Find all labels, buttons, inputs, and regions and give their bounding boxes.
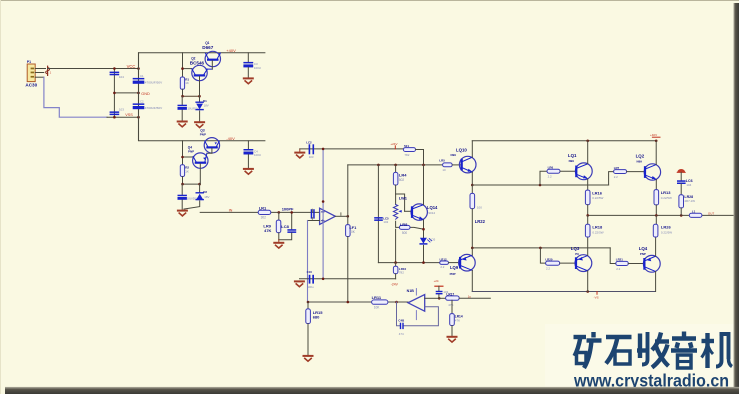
wire LQ9 base rail	[378, 262, 439, 264]
transistor LQ14 9014	[411, 204, 438, 220]
ground below C5	[178, 122, 187, 127]
wire AC2 to cap node	[107, 116, 139, 118]
svg-text:LR5: LR5	[439, 158, 445, 162]
resistor LR18 0.22/5W	[585, 215, 603, 237]
transistor Q1 D667	[202, 41, 220, 69]
glyph shi	[606, 337, 632, 364]
frame right shadow	[734, 3, 739, 394]
wire LQ4 collector down	[655, 272, 657, 292]
capacitor LC6 104	[677, 179, 693, 195]
frame left edge	[0, 0, 1, 394]
svg-text:LQ10: LQ10	[456, 148, 468, 153]
LED LD5	[420, 238, 436, 263]
wire main filter vertical	[138, 53, 140, 141]
resistor LR28	[679, 195, 695, 216]
svg-text:IN: IN	[229, 209, 233, 213]
frame top edge	[0, 0, 739, 1]
capacitor C2 4700UF/50V	[133, 100, 163, 110]
ground opamp supply cap	[295, 149, 304, 158]
power label +40V top right	[650, 133, 660, 137]
svg-text:N1B: N1B	[407, 289, 415, 293]
capacitor LC4 474	[398, 319, 404, 337]
svg-text:LR6: LR6	[548, 166, 554, 170]
resistor LR14 47K	[450, 300, 463, 336]
transistor Q2 BC546	[190, 56, 213, 96]
wire feedback node horizontal	[308, 301, 408, 303]
svg-text:LQ14: LQ14	[427, 205, 438, 210]
svg-text:0.22/5W: 0.22/5W	[592, 230, 603, 234]
svg-text:18V: 18V	[204, 104, 209, 108]
capacitor LC3	[307, 270, 314, 289]
svg-text:100U: 100U	[254, 153, 261, 157]
wire plus node to LR17	[439, 297, 445, 299]
svg-text:LR1: LR1	[259, 206, 267, 211]
svg-text:10K: 10K	[349, 230, 356, 234]
wire P1 pin3 stub	[35, 76, 44, 78]
resistor LR8	[396, 221, 425, 235]
svg-text:-24V: -24V	[391, 282, 399, 286]
svg-text:N99: N99	[451, 153, 457, 157]
wire lower bases rail	[472, 247, 610, 249]
resistor R1 1K	[180, 77, 189, 89]
svg-text:0.22/5W: 0.22/5W	[592, 196, 603, 200]
watermark panel	[545, 324, 734, 387]
svg-text:PNP: PNP	[450, 272, 456, 276]
svg-text:LQ3: LQ3	[571, 246, 580, 251]
pin ticks N1A	[312, 209, 341, 219]
capacitor servo 103	[436, 290, 449, 298]
wire mid GND	[114, 92, 138, 94]
ground -24V bypass	[295, 281, 304, 286]
svg-text:C10: C10	[307, 270, 313, 274]
ground below LR15	[304, 356, 313, 361]
resistor LR6 2.2 (LQ1 base)	[540, 166, 575, 185]
transistor LQ3 PNP	[571, 246, 592, 271]
ground shared negreg	[178, 211, 187, 216]
resistor LR10 782	[393, 263, 406, 279]
wire upper bases rail	[472, 184, 608, 186]
svg-text:2.2: 2.2	[546, 267, 550, 271]
ground below LR14	[448, 337, 457, 342]
watermark logo 矿石收音机	[574, 332, 733, 369]
wire IN signal	[200, 211, 319, 213]
svg-text:103: 103	[309, 155, 314, 159]
capacitor C6 104	[110, 72, 125, 79]
svg-text:102: 102	[383, 220, 388, 224]
svg-text:9014: 9014	[428, 211, 435, 215]
resistor LR15 680	[306, 302, 323, 356]
svg-text:103: 103	[119, 107, 124, 111]
svg-text:C1: C1	[140, 74, 144, 78]
glyph shou	[637, 332, 669, 368]
svg-text:LR21: LR21	[616, 258, 623, 262]
svg-text:100U: 100U	[254, 66, 261, 70]
wire P1 pin3 elbow (purple)	[44, 77, 107, 117]
svg-text:LR11: LR11	[372, 295, 382, 300]
svg-text:18V: 18V	[204, 195, 209, 199]
power symbol zobel	[677, 169, 685, 180]
svg-text:-40V: -40V	[226, 136, 235, 141]
resistor LR11 10K	[372, 295, 388, 309]
svg-text:LC2: LC2	[306, 141, 312, 145]
transistor LQ1 NPN	[568, 153, 592, 180]
capacitor LC5 102	[374, 216, 389, 224]
svg-text:LQ9: LQ9	[450, 265, 459, 270]
svg-text:1K: 1K	[185, 169, 189, 173]
wire R1 to bias node	[182, 89, 184, 96]
svg-text:10: 10	[442, 168, 446, 172]
potentiometer LW1	[393, 194, 411, 219]
capacitor C7 103	[110, 107, 125, 115]
capacitor LC2 103	[306, 141, 314, 159]
svg-text:VCC: VCC	[127, 64, 136, 69]
svg-text:+40V: +40V	[650, 133, 657, 137]
transistor LQ4 PNP	[639, 246, 660, 272]
svg-text:D2: D2	[203, 190, 207, 194]
svg-text:LR13: LR13	[661, 190, 672, 195]
wire N1B minus to integrator	[397, 302, 439, 326]
frame bottom shadow	[5, 387, 739, 394]
power tap +24V servo	[434, 279, 443, 291]
svg-text:1K: 1K	[185, 81, 189, 85]
svg-text:2.2: 2.2	[614, 175, 618, 179]
resistor LR9 47K	[263, 212, 280, 239]
svg-text:LQ2: LQ2	[636, 153, 645, 158]
svg-text:VSS: VSS	[125, 113, 133, 117]
svg-text:N99: N99	[569, 159, 575, 163]
capacitor C4 100U	[244, 141, 261, 169]
ground input network	[274, 240, 283, 248]
wire N1A noninv stub	[308, 220, 320, 222]
glyph kuang	[574, 332, 602, 368]
svg-text:P1: P1	[27, 60, 31, 64]
svg-text:0.22/5W: 0.22/5W	[661, 230, 672, 234]
resistor LR21 2.2 (LQ4 base)	[610, 248, 643, 271]
ground below C3	[244, 78, 253, 83]
svg-text:100: 100	[477, 206, 482, 210]
resistor R2 1K	[180, 165, 189, 177]
svg-text:+24: +24	[434, 279, 439, 283]
connector P1 AC30	[25, 60, 37, 87]
svg-text:4700UF/50V: 4700UF/50V	[145, 80, 163, 84]
svg-text:P9: P9	[575, 252, 579, 256]
svg-text:2.2: 2.2	[616, 267, 620, 271]
wire Q2 collector tap	[183, 68, 192, 70]
capacitor C3 100U	[243, 53, 260, 78]
glyph ji	[702, 333, 733, 368]
wire LC5 branch vertical	[377, 165, 379, 263]
svg-text:2.2: 2.2	[548, 175, 552, 179]
wire bypass vertical	[113, 69, 115, 118]
resistor LR22 100	[470, 185, 486, 248]
svg-text:PNP: PNP	[200, 132, 206, 136]
svg-text:104: 104	[686, 183, 691, 187]
svg-text:LR20: LR20	[545, 257, 552, 261]
fuse F1	[46, 66, 52, 75]
svg-text:L1: L1	[692, 209, 696, 213]
wire LQ10 emitter	[471, 172, 473, 185]
transistor LQ10 NPN	[451, 148, 477, 173]
wire Q4 collector tap	[183, 156, 193, 158]
wire LQ9 emitter up	[471, 248, 473, 255]
wire output up to VAS rail	[347, 165, 349, 216]
wire fuse to VCC node	[48, 68, 139, 70]
svg-text:474: 474	[399, 332, 404, 336]
capacitor LC8	[279, 211, 296, 240]
wire LQ10 collector	[471, 141, 473, 157]
op-amp N1A	[320, 208, 336, 224]
svg-text:OUT: OUT	[708, 212, 715, 216]
transistor Q3 PNP	[200, 129, 220, 154]
transistor Q4 PNP	[188, 146, 208, 185]
svg-text:302: 302	[261, 215, 267, 219]
junction dots posreg	[181, 67, 201, 97]
junction dots input node	[113, 67, 140, 118]
svg-text:LR17: LR17	[446, 292, 454, 296]
wire P1 pin2 stub	[35, 72, 44, 74]
wire LQ14 emitter vertical	[423, 220, 425, 238]
wire LQ3 emitter up	[587, 237, 589, 256]
svg-text:47K: 47K	[455, 318, 460, 322]
wire feedback vertical	[307, 221, 309, 303]
wire Q3Q4 supply vertical	[182, 141, 184, 165]
svg-text:782: 782	[404, 153, 409, 157]
resistor LR5 10 (LQ10 base)	[439, 158, 460, 172]
resistor LR17 47K	[446, 292, 460, 306]
power label -VS bottom	[594, 292, 599, 300]
capacitor C5 bias	[178, 96, 199, 121]
svg-text:LQ4: LQ4	[639, 246, 648, 251]
wire LQ1 emitter	[587, 179, 589, 190]
transistor LQ2 NPN	[636, 153, 661, 180]
svg-text:D1: D1	[203, 99, 207, 103]
svg-text:LR18: LR18	[592, 225, 603, 230]
resistor LR16 0.22/5W	[585, 190, 603, 215]
zener D2 18V	[184, 184, 210, 209]
wire -rail	[139, 140, 265, 142]
wire +24V rail	[300, 148, 404, 150]
wire VAS rail	[348, 164, 443, 166]
wire LR8 left branch down	[395, 229, 397, 262]
svg-text:4700UF/50V: 4700UF/50V	[145, 106, 163, 110]
svg-text:LR12: LR12	[440, 257, 447, 261]
wire top VCC rail	[472, 140, 656, 142]
wire LQ9 collector down to neg rail	[471, 270, 473, 291]
wire P1 pin1 to fuse	[35, 68, 45, 70]
transistor LQ9 PNP	[450, 254, 476, 275]
svg-text:LR16: LR16	[592, 191, 603, 196]
svg-text:47K: 47K	[448, 303, 453, 307]
svg-text:100u: 100u	[307, 285, 314, 289]
capacitor 100PF series	[282, 206, 315, 218]
wire output rail	[588, 214, 735, 216]
ground below C4	[244, 169, 253, 174]
svg-text:2.2: 2.2	[440, 265, 444, 269]
resistor LR12 2.2 (LQ9 base)	[440, 257, 459, 268]
svg-text:LR8: LR8	[400, 222, 408, 227]
svg-text:100PF: 100PF	[282, 206, 294, 211]
svg-text:+24V: +24V	[390, 142, 397, 146]
svg-text:47K: 47K	[264, 228, 271, 233]
wire bias node horizontal neg	[183, 183, 200, 185]
wire -24V rail	[300, 278, 396, 280]
wire LQ2 emitter	[655, 180, 657, 190]
wire N1A output	[335, 215, 348, 217]
svg-text:LR26: LR26	[661, 225, 672, 230]
svg-text:BC546: BC546	[190, 61, 205, 66]
svg-text:N99: N99	[637, 160, 643, 164]
junction node IN	[278, 211, 281, 214]
svg-text:PNP: PNP	[188, 149, 194, 153]
resistor LR13 0.22/5W	[654, 190, 672, 216]
op-amp N1B	[407, 289, 425, 320]
resistor LR4 502	[393, 165, 407, 205]
svg-text:104: 104	[119, 75, 124, 79]
svg-text:0.22/5W: 0.22/5W	[661, 196, 672, 200]
wire to OUT sense	[459, 297, 490, 299]
svg-text:4R7-1W: 4R7-1W	[684, 199, 695, 203]
svg-text:C4B: C4B	[398, 319, 404, 323]
wire R2 to bias node	[182, 177, 184, 185]
resistor LR1 302	[258, 206, 271, 220]
svg-text:1u: 1u	[468, 294, 472, 298]
svg-text:LW1: LW1	[399, 195, 408, 200]
svg-text:LR22: LR22	[475, 219, 486, 224]
zener D1 18V	[196, 96, 209, 122]
wire bias node horizontal	[183, 95, 200, 97]
junction dots negreg	[181, 156, 201, 186]
wire Q1Q2 supply vertical	[182, 53, 184, 77]
wire LQ3 collector down	[587, 271, 589, 292]
svg-text:680: 680	[313, 315, 320, 320]
svg-text:502: 502	[399, 178, 405, 182]
resistor 782	[403, 144, 415, 157]
wire bottom VEE rail	[472, 291, 655, 293]
svg-text:LD5: LD5	[430, 238, 436, 242]
svg-text:+40V: +40V	[226, 48, 236, 53]
svg-text:500: 500	[402, 231, 408, 235]
svg-text:C2: C2	[140, 100, 144, 104]
wire LQ14 collector vertical	[423, 165, 425, 205]
svg-text:GND: GND	[141, 92, 150, 96]
svg-text:AC30: AC30	[25, 83, 37, 88]
capacitor C8 bias neg	[178, 184, 198, 210]
svg-text:LR7: LR7	[614, 166, 620, 170]
svg-text:D667: D667	[202, 45, 213, 50]
wire LQ1 collector	[587, 141, 589, 164]
svg-text:LQ1: LQ1	[568, 153, 577, 158]
svg-text:-VS: -VS	[594, 295, 599, 299]
wire LQ2 collector	[655, 141, 657, 165]
resistor LR7 2.2 (LQ2 base)	[609, 166, 644, 185]
wire +rail top	[139, 52, 265, 54]
svg-text:521: 521	[404, 144, 409, 148]
glyph yin	[671, 332, 697, 369]
capacitor C1 4700UF/50V	[133, 74, 163, 84]
wire 782 to LQ14 collector	[416, 150, 424, 165]
svg-text:10K: 10K	[374, 306, 381, 310]
power label +24V	[390, 142, 397, 149]
resistor L1 output	[689, 209, 702, 217]
resistor LR26 0.22/5W	[653, 215, 672, 237]
resistor LR20 2.2 (LQ3 base)	[540, 248, 575, 271]
wire LQ4 emitter up	[655, 237, 657, 256]
wire opamp supply vertical	[322, 149, 324, 279]
svg-text:782: 782	[399, 270, 404, 274]
wire N1B plus stub	[425, 297, 440, 299]
svg-text:PNP: PNP	[640, 252, 646, 256]
resistor LF1 10K	[346, 216, 357, 302]
ground below D1	[195, 122, 204, 127]
svg-text:LC8: LC8	[281, 224, 289, 229]
